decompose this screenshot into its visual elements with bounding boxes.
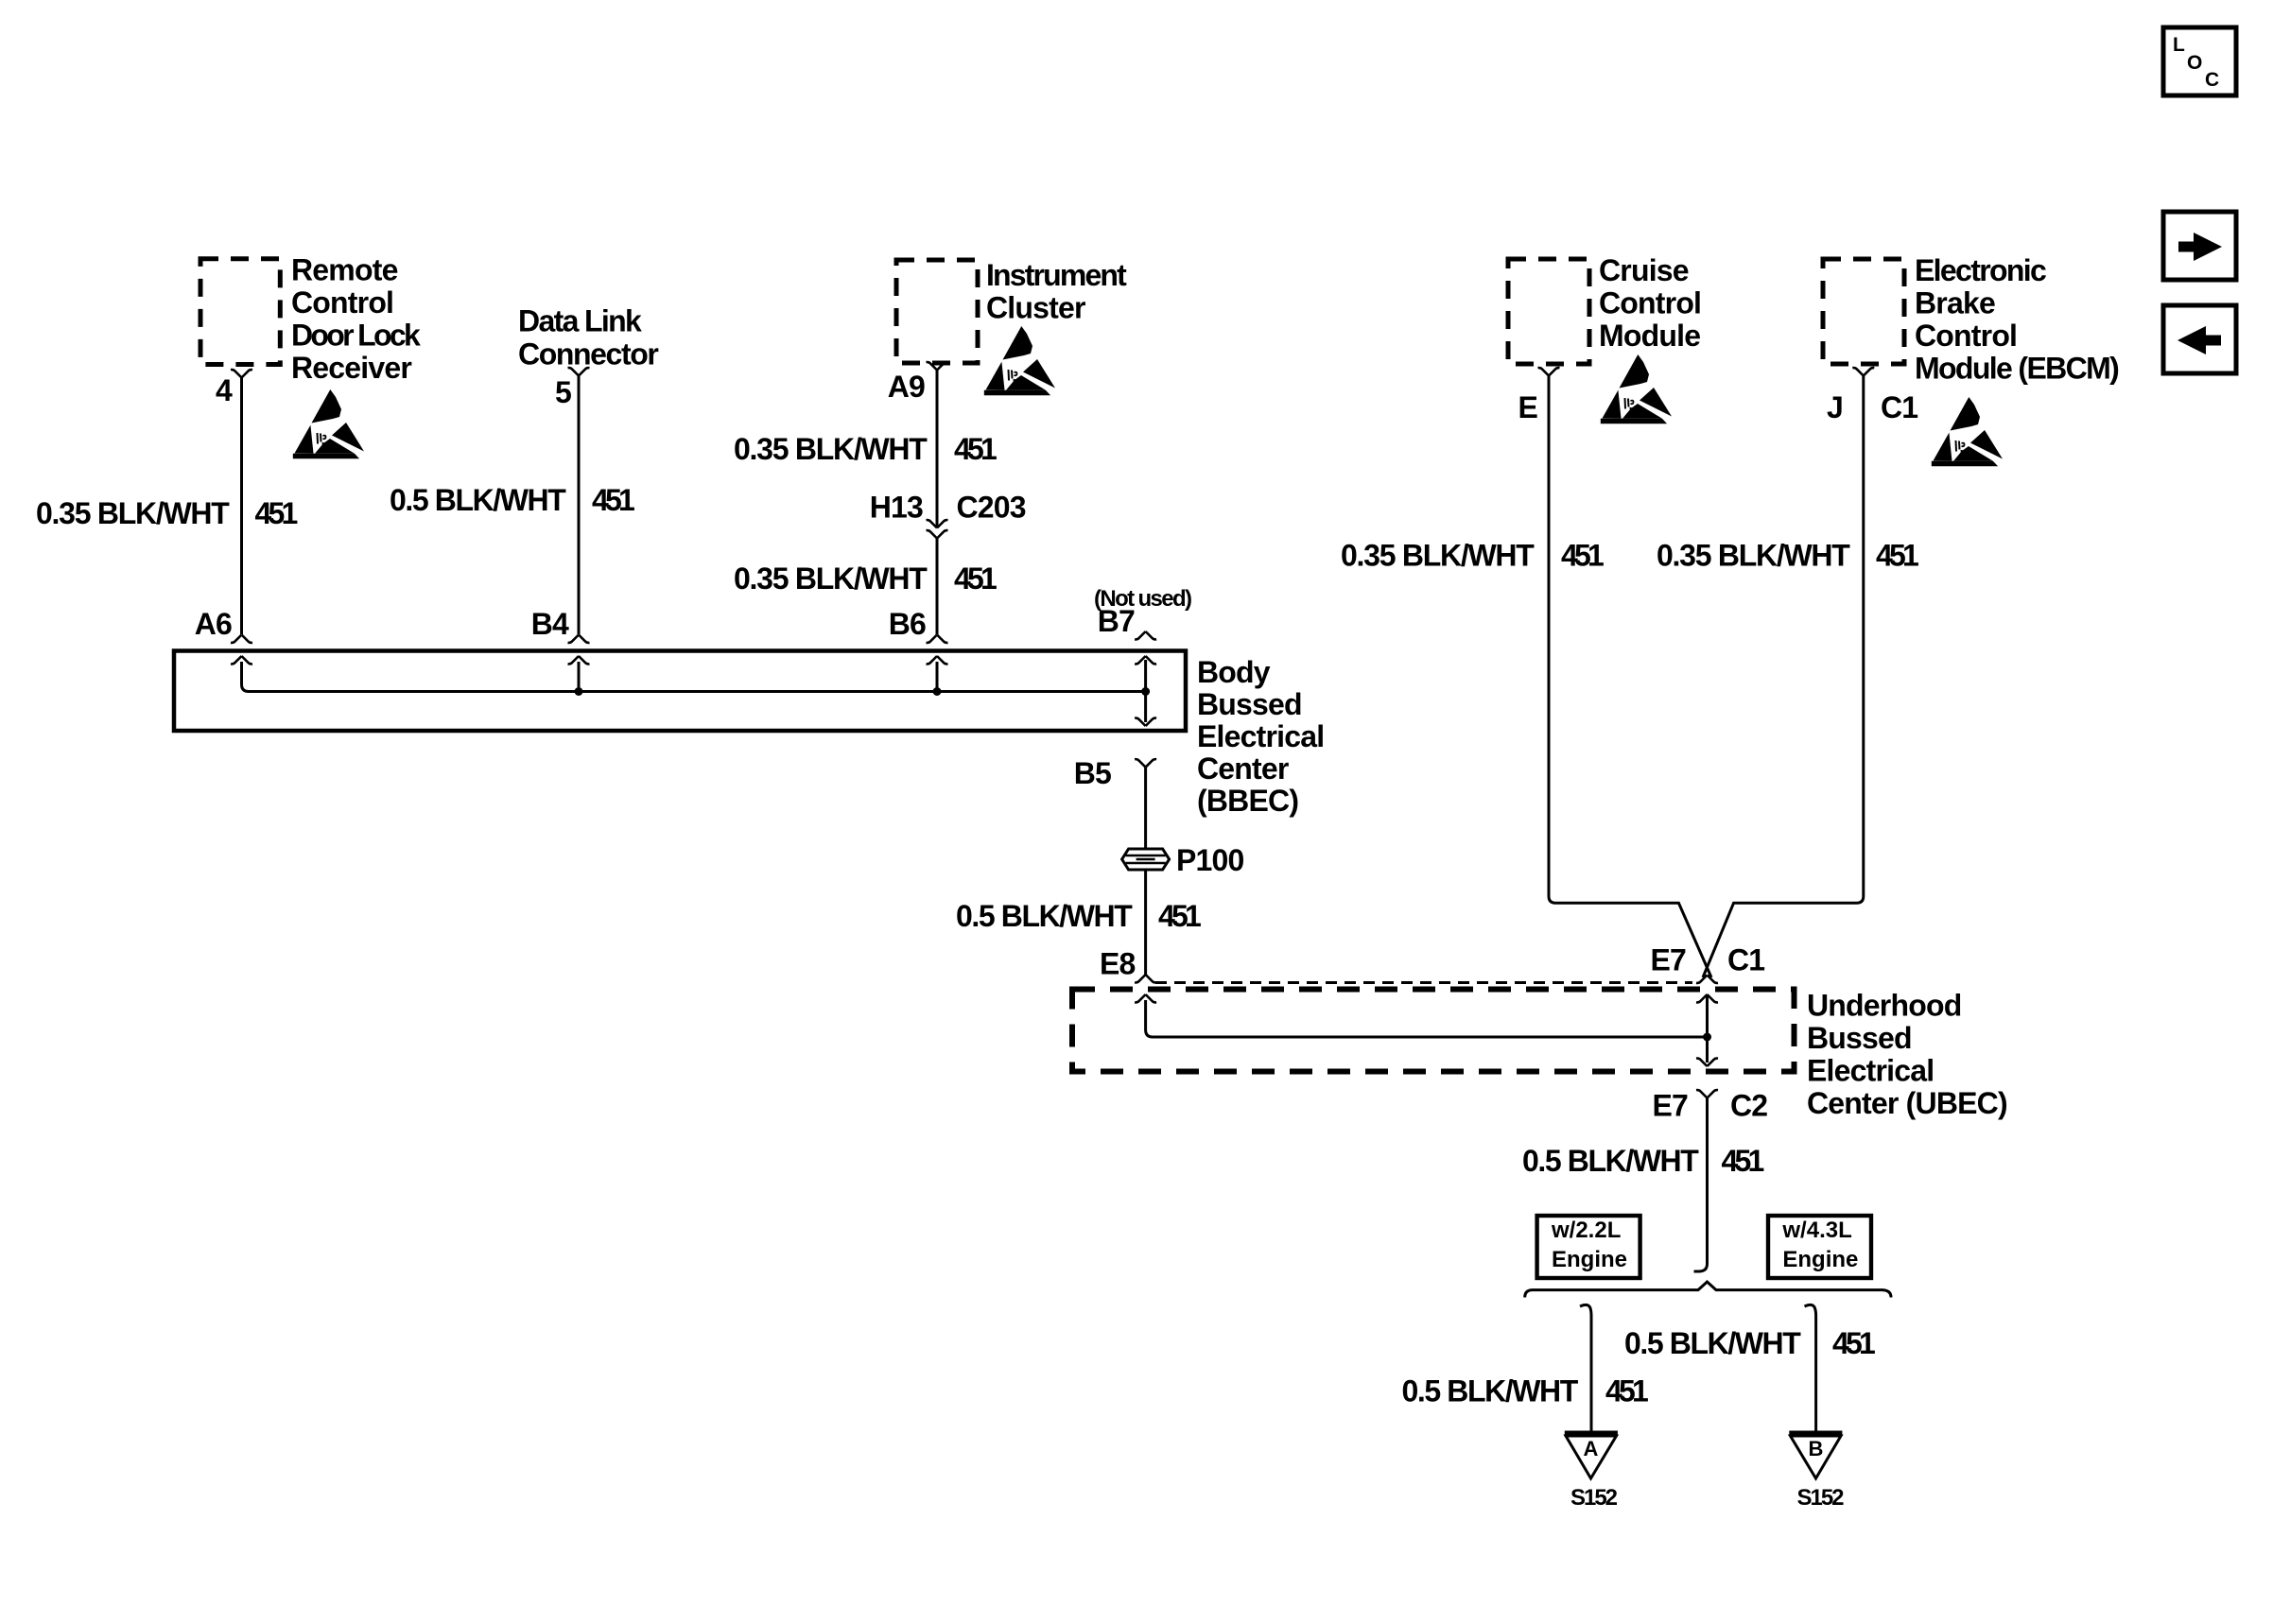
svg-text:H13: H13 [870,491,923,525]
svg-text:B4: B4 [531,607,569,641]
svg-text:(BBEC): (BBEC) [1197,784,1298,818]
svg-text:Center (UBEC): Center (UBEC) [1807,1086,2007,1120]
svg-text:(Not used): (Not used) [1094,586,1192,612]
svg-text:Instrument: Instrument [986,258,1127,292]
svg-text:451: 451 [1158,899,1201,933]
svg-text:Module (EBCM): Module (EBCM) [1915,352,2119,386]
svg-text:451: 451 [954,561,997,596]
svg-text:451: 451 [954,432,997,466]
svg-text:0.35 BLK/WHT: 0.35 BLK/WHT [36,496,230,530]
svg-text:0.35 BLK/WHT: 0.35 BLK/WHT [1341,539,1535,573]
svg-text:Underhood: Underhood [1807,989,1961,1023]
svg-text:C1: C1 [1727,943,1764,977]
svg-text:C1: C1 [1881,390,1917,424]
svg-text:0.35 BLK/WHT: 0.35 BLK/WHT [734,432,928,466]
svg-text:0.5 BLK/WHT: 0.5 BLK/WHT [390,483,566,517]
svg-text:Electrical: Electrical [1197,719,1324,753]
svg-text:Engine: Engine [1552,1247,1627,1272]
svg-text:J: J [1827,390,1843,424]
svg-text:C: C [2205,69,2219,91]
svg-text:451: 451 [1561,539,1604,573]
svg-text:B5: B5 [1074,756,1111,790]
svg-text:S152: S152 [1570,1485,1618,1511]
svg-text:Brake: Brake [1915,286,1995,320]
svg-text:Door Lock: Door Lock [291,319,421,353]
svg-text:S152: S152 [1797,1485,1845,1511]
svg-text:Control: Control [1915,319,2017,353]
svg-text:4: 4 [216,373,233,407]
svg-text:451: 451 [1722,1144,1764,1178]
svg-text:B: B [1809,1437,1824,1460]
svg-text:451: 451 [1605,1374,1648,1408]
svg-text:A9: A9 [888,370,925,404]
svg-text:E7: E7 [1652,1089,1688,1123]
svg-text:Remote: Remote [291,253,398,287]
svg-text:0.5 BLK/WHT: 0.5 BLK/WHT [1402,1374,1579,1408]
svg-text:451: 451 [1876,539,1918,573]
svg-text:451: 451 [1832,1326,1875,1360]
svg-text:O: O [2187,52,2202,74]
svg-text:E: E [1518,390,1537,424]
svg-text:Cruise: Cruise [1599,253,1689,287]
svg-text:w/2.2L: w/2.2L [1551,1218,1621,1243]
svg-text:A6: A6 [195,607,232,641]
svg-text:Electrical: Electrical [1807,1054,1934,1088]
svg-text:w/4.3L: w/4.3L [1781,1218,1851,1243]
svg-text:A: A [1584,1437,1599,1460]
svg-text:E7: E7 [1650,943,1686,977]
svg-text:0.35 BLK/WHT: 0.35 BLK/WHT [734,561,928,596]
svg-text:Control: Control [1599,286,1701,320]
svg-text:Receiver: Receiver [291,351,411,385]
svg-text:Bussed: Bussed [1807,1021,1912,1055]
svg-text:Body: Body [1197,655,1271,689]
svg-text:Electronic: Electronic [1915,253,2046,287]
svg-text:Cluster: Cluster [986,291,1085,325]
svg-text:0.5 BLK/WHT: 0.5 BLK/WHT [1624,1326,1801,1360]
svg-text:C203: C203 [957,491,1026,525]
svg-text:0.5 BLK/WHT: 0.5 BLK/WHT [956,899,1133,933]
svg-text:Control: Control [291,285,393,320]
svg-text:E8: E8 [1100,947,1136,981]
svg-text:Data Link: Data Link [518,303,642,337]
svg-text:L: L [2173,34,2185,56]
svg-text:451: 451 [255,496,298,530]
svg-text:451: 451 [592,483,634,517]
svg-text:Bussed: Bussed [1197,687,1302,721]
svg-text:P100: P100 [1176,843,1244,877]
svg-text:0.5 BLK/WHT: 0.5 BLK/WHT [1522,1144,1699,1178]
svg-text:Module: Module [1599,319,1700,353]
svg-text:5: 5 [555,375,571,409]
svg-text:0.35 BLK/WHT: 0.35 BLK/WHT [1657,539,1850,573]
svg-text:C2: C2 [1730,1089,1767,1123]
svg-text:B6: B6 [889,607,926,641]
svg-text:Engine: Engine [1782,1247,1858,1272]
svg-text:Connector: Connector [518,337,658,371]
svg-text:Center: Center [1197,752,1289,786]
